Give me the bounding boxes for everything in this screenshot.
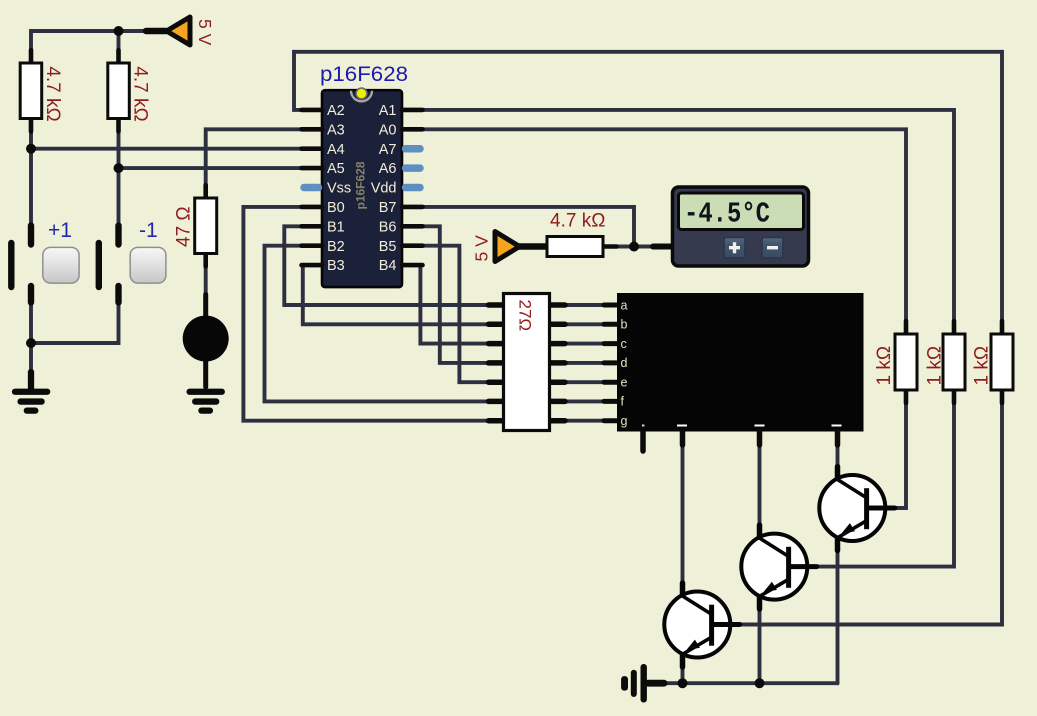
wire pack out c	[565, 342, 604, 346]
svg-text:A4: A4	[327, 142, 345, 158]
wire display digit2 to Q2 collector	[758, 432, 762, 538]
ground GND2	[187, 389, 225, 414]
svg-text:-4.5°C: -4.5°C	[684, 198, 770, 231]
junction node buttons to ground	[26, 338, 36, 348]
wire R6 bottom to Q1 base	[738, 404, 1002, 625]
wire SW2 bottom joining SW1	[31, 303, 119, 343]
wire display digit3 to Q3 collector	[836, 432, 840, 479]
svg-text:4.7 kΩ: 4.7 kΩ	[130, 66, 151, 121]
display dp pin stub	[640, 432, 646, 452]
display digit pins	[683, 432, 838, 446]
ground GND3 (rotated left)	[621, 664, 664, 703]
svg-text:1 kΩ: 1 kΩ	[972, 346, 993, 386]
resistor R6 1k	[972, 321, 1014, 403]
pin A1	[402, 108, 423, 113]
voltage source V2 5V (points right)	[472, 232, 547, 262]
junction node at 5V rail	[114, 26, 124, 36]
sensor minus button	[762, 238, 783, 259]
resistor R3 4.7k horizontal	[547, 211, 617, 257]
wire B5 to pack pin5	[422, 246, 489, 383]
junction node sensor	[629, 242, 639, 252]
pin A5	[302, 166, 323, 171]
display digit pin marks	[642, 425, 645, 427]
svg-text:c: c	[621, 337, 627, 351]
7-segment display DISP1	[604, 293, 864, 451]
wire pack out e	[565, 380, 604, 384]
pin B5	[402, 243, 423, 248]
transistor Q1	[664, 583, 740, 667]
chip notch arc	[351, 91, 372, 102]
push switch SW1	[11, 219, 79, 303]
transistor Q2	[741, 525, 817, 609]
pin B6	[402, 224, 423, 229]
pin B7	[402, 205, 423, 210]
sensor plus button	[724, 238, 745, 259]
pin A7 (unconnected)	[406, 145, 421, 153]
wire R2 bottom to button SW2	[117, 131, 121, 226]
svg-text:4.7 kΩ: 4.7 kΩ	[42, 66, 63, 121]
svg-text:27Ω: 27Ω	[515, 300, 534, 332]
svg-text:1 kΩ: 1 kΩ	[874, 346, 895, 386]
pin B1	[302, 224, 323, 229]
svg-text:-1: -1	[139, 219, 158, 242]
pin B3	[302, 263, 323, 268]
junction node A4 row	[26, 144, 36, 154]
wire 5V rail to R1	[31, 31, 148, 51]
svg-text:B7: B7	[379, 200, 397, 216]
resistor R4 1k	[925, 321, 966, 403]
svg-text:Vdd: Vdd	[371, 181, 397, 197]
wire Q3 emitter to ground rail	[836, 538, 840, 684]
chip index dot	[356, 88, 367, 99]
wire A4 row	[31, 147, 302, 151]
wire pack out g	[565, 419, 604, 423]
wire Q1 emitter to ground rail	[681, 654, 685, 683]
svg-text:A1: A1	[379, 103, 397, 119]
wire ground rail bottom	[662, 681, 838, 685]
wire A1 to R4 top	[422, 110, 954, 321]
pin Vdd (unconnected)	[406, 184, 421, 192]
svg-text:d: d	[621, 356, 628, 370]
pin A2	[302, 108, 323, 113]
wire pack out f	[565, 399, 604, 403]
resistor R1 4.7k	[20, 50, 63, 132]
svg-text:A6: A6	[379, 161, 397, 177]
pin B4	[402, 263, 423, 268]
push switch SW2	[99, 219, 166, 303]
svg-text:p16F628: p16F628	[320, 63, 408, 86]
temperature sensor DS1	[653, 187, 809, 266]
resistor R5 1k	[874, 321, 917, 403]
wire B4 to pack pin3	[420, 265, 489, 344]
pin B0	[302, 205, 323, 210]
resistor pack RN1 27ohm	[489, 294, 566, 431]
svg-text:e: e	[621, 376, 628, 390]
svg-text:A5: A5	[327, 161, 345, 177]
wire SW1 bottom to ground	[29, 303, 33, 375]
pin Vss (unconnected)	[304, 184, 319, 192]
wire pack out d	[565, 361, 604, 365]
svg-text:B6: B6	[379, 219, 397, 235]
svg-text:5 V: 5 V	[195, 19, 215, 46]
svg-text:B2: B2	[327, 239, 345, 255]
svg-text:b: b	[621, 318, 628, 332]
wire B2 to pack pin6	[265, 246, 490, 402]
wire B6 to pack pin4	[422, 226, 489, 363]
wire A3 to 47ohm resistor	[206, 129, 302, 186]
svg-text:B5: B5	[379, 239, 397, 255]
svg-text:f: f	[621, 395, 625, 409]
wire A2 to top rail to R6 top	[294, 52, 1002, 321]
svg-text:B1: B1	[327, 219, 345, 235]
buzzer	[183, 295, 229, 388]
wire pack out b	[565, 322, 604, 326]
junction node Q1 emitter	[678, 678, 688, 688]
svg-text:B0: B0	[327, 200, 345, 216]
svg-text:4.7 kΩ: 4.7 kΩ	[550, 211, 605, 232]
junction node Q2 emitter	[755, 678, 765, 688]
svg-text:p16F628: p16F628	[354, 161, 368, 209]
svg-text:a: a	[621, 298, 628, 312]
voltage source V1 5V (points left)	[146, 17, 215, 46]
wire B7 to node	[422, 207, 634, 247]
pin A0	[402, 127, 423, 132]
svg-text:5 V: 5 V	[472, 235, 492, 262]
wire A5 row	[119, 166, 303, 170]
wire display digit1 to Q1 collector	[681, 432, 685, 596]
wire rail branch to R2	[117, 31, 121, 51]
wire B3 to pack pin2	[302, 265, 489, 324]
svg-text:B4: B4	[379, 258, 397, 274]
resistor R2 4.7k	[108, 50, 151, 132]
wire Q2 emitter to ground rail	[758, 596, 762, 683]
wire B0 to pack pin7	[243, 207, 489, 421]
wire B1 to pack pin1	[284, 226, 489, 305]
svg-text:+1: +1	[48, 219, 72, 242]
svg-text:g: g	[621, 414, 628, 428]
svg-text:A3: A3	[327, 122, 345, 138]
pin A6 (unconnected)	[406, 164, 421, 172]
svg-text:Vss: Vss	[327, 181, 351, 197]
svg-text:A7: A7	[379, 142, 397, 158]
wire R4 bottom to Q2 base	[815, 404, 954, 567]
microcontroller U1 p16F628	[302, 63, 423, 287]
svg-text:A0: A0	[379, 122, 397, 138]
transistor Q3	[819, 467, 895, 551]
wire R1 bottom to button SW1	[29, 131, 33, 226]
resistor R7 47ohm	[174, 185, 217, 267]
junction node A5 row	[114, 163, 124, 173]
wire 47ohm to buzzer	[204, 266, 208, 295]
ground GND1	[12, 372, 50, 414]
wire R5 bottom to Q3 base	[893, 404, 906, 509]
svg-text:47 Ω: 47 Ω	[174, 206, 195, 247]
svg-text:B3: B3	[327, 258, 345, 274]
wire A0 to R5 top	[422, 129, 906, 321]
svg-text:1 kΩ: 1 kΩ	[925, 346, 946, 386]
pin A3	[302, 127, 323, 132]
svg-text:A2: A2	[327, 103, 345, 119]
pin B2	[302, 243, 323, 248]
pin A4	[302, 146, 323, 151]
wire pack out a	[565, 303, 604, 307]
wire R3 to sensor node	[616, 245, 653, 249]
